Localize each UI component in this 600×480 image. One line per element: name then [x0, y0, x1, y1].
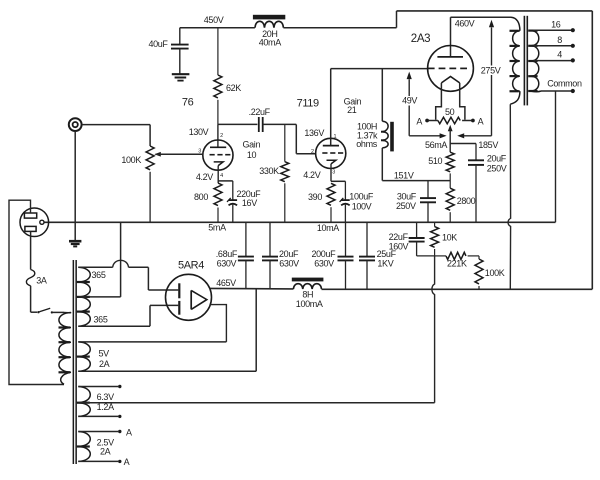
- transformer T2 core: [524, 16, 529, 106]
- wire 5AR4 filament to 5V winding: [210, 305, 226, 342]
- tube 76 envelope: [203, 140, 233, 170]
- tube 76 plate: [210, 146, 226, 148]
- svg-text:62K: 62K: [226, 83, 241, 93]
- tube 5AR4 plates: [178, 283, 180, 314]
- wire 365V center tap to ground bus: [78, 222, 120, 297]
- wire OPT primary bottom lead with hop over ground bus: [508, 104, 511, 289]
- svg-text:8: 8: [557, 35, 562, 45]
- capacitor 220uF 16V: [227, 198, 237, 222]
- svg-text:40uF: 40uF: [148, 39, 168, 49]
- measure arrow 49V to 2A3 grid: [407, 72, 412, 136]
- capacitor 20uF 630V: [262, 222, 278, 288]
- pin 2 of 7119: [311, 149, 314, 155]
- label 221K: [447, 258, 467, 268]
- transformer T1 365V winding: [77, 267, 90, 326]
- wire B+ bus right of choke: [322, 288, 593, 290]
- label 6.3V 1.2A: [97, 392, 114, 412]
- wire 450V rail left segment: [180, 27, 255, 29]
- wire hum frame right with arrow: [457, 133, 491, 138]
- tube 7119 envelope: [316, 138, 346, 168]
- svg-text:2: 2: [220, 133, 223, 139]
- label 49V: [401, 96, 420, 106]
- svg-text:40mA: 40mA: [259, 38, 281, 48]
- svg-text:50: 50: [445, 107, 455, 117]
- svg-text:100V: 100V: [352, 201, 372, 211]
- wire corner step up to top border: [396, 11, 398, 28]
- label 20uF 630V: [279, 249, 299, 268]
- wire Common tap: [532, 89, 575, 93]
- label 8: [557, 35, 562, 45]
- svg-text:A: A: [126, 427, 132, 437]
- label A at 2.5V top: [126, 427, 132, 437]
- svg-text:2A: 2A: [100, 447, 111, 457]
- svg-text:460V: 460V: [455, 18, 475, 28]
- label 450V: [204, 15, 224, 25]
- pin 2 of 76: [220, 133, 223, 139]
- label 7119 tube name: [297, 97, 319, 109]
- label Common: [547, 78, 582, 88]
- label 10K: [442, 232, 457, 242]
- capacitor 20uF 250V at 185V: [468, 160, 484, 222]
- wire coupling cap to 7119 grid: [263, 124, 317, 153]
- capacitor 100uF 100V: [340, 198, 350, 222]
- svg-text:151V: 151V: [394, 170, 414, 180]
- svg-text:10: 10: [247, 150, 257, 160]
- label 10mA: [317, 223, 339, 233]
- capacitor 22uF 160V: [409, 222, 435, 256]
- svg-text:630V: 630V: [279, 259, 299, 269]
- label 330K: [259, 166, 279, 176]
- svg-text:7119: 7119: [297, 97, 319, 109]
- wire 5V bottom tap to B+ takeoff: [78, 289, 256, 372]
- label 220uF 16V: [237, 189, 262, 208]
- choke L2 8H 100mA: [292, 278, 324, 290]
- tube 5AR4 filament: [191, 290, 207, 309]
- svg-text:185V: 185V: [478, 140, 498, 150]
- ground symbol at 40uF: [172, 74, 190, 80]
- label 510: [428, 156, 442, 166]
- pin 3 of 76: [198, 149, 201, 155]
- label 2A3 tube name: [411, 33, 431, 45]
- label 4.2V at 7119: [303, 170, 320, 180]
- node 76 plate junction wire: [217, 124, 219, 147]
- label Gain 21: [344, 96, 362, 115]
- svg-text:365: 365: [92, 270, 106, 280]
- transformer T1 5V winding: [77, 342, 90, 371]
- svg-text:1: 1: [333, 134, 336, 140]
- label 16: [551, 20, 561, 30]
- switch S1 power: [37, 308, 53, 313]
- transformer T2 secondary winding: [528, 31, 539, 91]
- svg-text:100mA: 100mA: [296, 299, 323, 309]
- svg-text:100K: 100K: [121, 155, 141, 165]
- svg-text:510: 510: [428, 156, 442, 166]
- svg-text:30uF: 30uF: [397, 191, 417, 201]
- label 20uF 250V: [487, 154, 507, 174]
- resistor 2800: [446, 188, 454, 222]
- svg-text:450V: 450V: [204, 15, 224, 25]
- wire B+ 465V line: [209, 287, 293, 290]
- wire 2.5V top tap: [78, 430, 121, 433]
- resistor 62K plate load: [214, 28, 222, 125]
- inductor 100H 1.37k plate choke: [381, 121, 394, 151]
- svg-text:275V: 275V: [481, 65, 501, 75]
- tube 2A3 grid dashes: [428, 67, 467, 69]
- svg-text:465V: 465V: [216, 278, 236, 288]
- label A right terminal: [478, 116, 484, 126]
- resistor 10K: [431, 222, 439, 256]
- wire 8 ohm tap: [534, 44, 575, 48]
- svg-text:221K: 221K: [447, 258, 467, 268]
- svg-text:10K: 10K: [442, 232, 457, 242]
- tube 2A3 plate: [437, 56, 463, 58]
- svg-text:250V: 250V: [487, 163, 507, 173]
- input jack J1: [69, 118, 82, 131]
- capacitor 40uF input filter: [171, 28, 189, 74]
- svg-text:76: 76: [182, 97, 194, 109]
- wire 10K node down with hop over B+ bus: [432, 256, 435, 403]
- label 8H 100mA: [296, 290, 323, 309]
- wire 450V rail right segment: [283, 27, 396, 29]
- label 5AR4 tube name: [178, 260, 204, 272]
- wire 7119 plate to 2A3 grid: [331, 69, 428, 146]
- svg-text:2A: 2A: [99, 359, 110, 369]
- label A left terminal: [416, 116, 422, 126]
- label 20H 40mA: [259, 29, 281, 48]
- svg-text:330K: 330K: [259, 166, 279, 176]
- capacitor .22uF coupling: [259, 117, 263, 132]
- capacitor 25uF 1KV: [359, 222, 375, 289]
- svg-text:5mA: 5mA: [208, 223, 226, 233]
- transformer T1 2.5V winding: [77, 432, 90, 462]
- resistor 221K feedback: [435, 252, 479, 259]
- svg-text:4: 4: [220, 173, 223, 179]
- svg-text:100uF: 100uF: [349, 192, 374, 202]
- wire 5V top tap: [78, 341, 226, 343]
- label 460V: [455, 18, 475, 28]
- fuse 3A: [26, 270, 34, 286]
- label 100uF 100V: [349, 192, 374, 212]
- label 4: [557, 50, 562, 60]
- transformer T1 primary winding: [59, 313, 72, 385]
- svg-text:10mA: 10mA: [317, 223, 339, 233]
- potentiometer 50 ohm hum balance: [425, 117, 475, 123]
- wire 365V top tap with hop: [78, 260, 178, 290]
- transformer T1 core: [73, 260, 77, 464]
- wire switch to primary: [53, 311, 71, 313]
- wire 76 grid from pot wiper: [154, 152, 203, 157]
- tube 76 cathode: [214, 162, 223, 183]
- svg-text:100K: 100K: [485, 268, 505, 278]
- label 136V: [304, 128, 324, 138]
- label 40uF: [148, 39, 168, 49]
- svg-text:1KV: 1KV: [377, 259, 393, 269]
- resistor 800 cathode: [214, 183, 222, 222]
- svg-text:250V: 250V: [396, 201, 416, 211]
- tube 2A3 filament: [436, 77, 465, 120]
- choke L1 20H 40mA: [253, 15, 285, 28]
- svg-text:20uF: 20uF: [487, 154, 507, 164]
- label 800: [194, 192, 208, 202]
- resistor 510: [446, 152, 454, 188]
- label .68uF 630V: [216, 249, 238, 268]
- wire jack to volume pot: [82, 125, 150, 146]
- svg-text:49V: 49V: [402, 96, 417, 106]
- svg-text:4.2V: 4.2V: [303, 170, 320, 180]
- svg-text:56mA: 56mA: [425, 140, 447, 150]
- wire 100uF branch: [331, 181, 345, 200]
- svg-text:Gain: Gain: [242, 140, 260, 150]
- label 100K volume: [121, 155, 141, 165]
- wire 100H bottom to 151V node: [382, 148, 450, 181]
- tube 7119 cathode: [327, 160, 336, 181]
- label 185V: [478, 140, 498, 150]
- wire plug neutral down to fuse: [30, 231, 32, 269]
- wire 4 ohm tap: [534, 58, 575, 62]
- label 200uF 630V: [312, 249, 337, 268]
- svg-text:630V: 630V: [217, 259, 237, 269]
- wire 2.5V bottom tap: [78, 460, 121, 463]
- svg-text:6.3V: 6.3V: [97, 392, 114, 402]
- potentiometer 100K volume: [146, 146, 154, 222]
- label 22uF 160V: [389, 232, 409, 252]
- wire 6.3V top tap: [78, 385, 121, 388]
- svg-text:2800: 2800: [457, 196, 476, 206]
- svg-text:160V: 160V: [389, 241, 409, 251]
- label 50: [445, 107, 455, 117]
- label 130V: [189, 127, 209, 137]
- svg-text:2: 2: [311, 149, 314, 155]
- label 151V: [394, 170, 414, 180]
- wire 100H top lead: [381, 69, 383, 122]
- label 30uF 250V: [396, 191, 417, 211]
- tube 7119 plate: [323, 145, 339, 147]
- svg-text:ohms: ohms: [356, 139, 377, 149]
- label 4.2V at 76 cathode: [196, 172, 213, 182]
- svg-text:630V: 630V: [314, 259, 334, 269]
- wire fuse to switch: [31, 286, 37, 312]
- wire 6.3V center tap hum line: [78, 402, 434, 404]
- label Gain 10: [242, 140, 260, 160]
- label .22uF: [249, 107, 271, 117]
- wire 185V branch: [450, 144, 476, 160]
- wire 6.3V bottom tap: [78, 415, 121, 418]
- svg-text:4.2V: 4.2V: [196, 172, 213, 182]
- resistor 390 cathode: [327, 183, 335, 222]
- label 56mA: [425, 140, 447, 150]
- wire 76 plate to coupling cap: [218, 123, 258, 125]
- tube 76 grid dashes: [210, 154, 231, 156]
- wire 16 ohm tap: [534, 28, 575, 32]
- svg-text:365: 365: [94, 315, 108, 325]
- AC plug P1: [20, 208, 49, 237]
- svg-text:A: A: [124, 457, 130, 467]
- wire jack ground drop: [74, 131, 76, 241]
- svg-text:4: 4: [557, 50, 562, 60]
- wire hum frame left with arrow: [409, 133, 446, 138]
- svg-text:130V: 130V: [189, 127, 209, 137]
- svg-text:Common: Common: [547, 78, 582, 88]
- svg-text:A: A: [416, 116, 422, 126]
- pin 3 of 7119: [332, 169, 335, 175]
- label 100H 1.37k ohms: [356, 121, 378, 149]
- label 2.5V 2A: [97, 437, 114, 456]
- svg-text:390: 390: [308, 192, 322, 202]
- svg-text:5V: 5V: [98, 348, 109, 358]
- tube 7119 grid dashes: [322, 152, 343, 154]
- pin 4 of 76: [220, 173, 223, 179]
- label 365 bottom: [94, 315, 108, 325]
- tube 5AR4 envelope: [166, 274, 212, 320]
- pin 1 of 7119: [333, 134, 336, 140]
- wire 220uF branch: [218, 181, 233, 200]
- svg-text:A: A: [478, 116, 484, 126]
- label 390: [308, 192, 322, 202]
- svg-text:3A: 3A: [36, 276, 47, 286]
- label 5mA: [208, 223, 226, 233]
- label 100K feedback: [485, 268, 505, 278]
- wire 2A3 plate to OPT primary: [451, 17, 512, 57]
- capacitor .68uF 630V: [238, 222, 254, 288]
- label 3A: [36, 276, 47, 286]
- label 275V: [480, 65, 502, 75]
- wire right border down to B+ bus: [591, 11, 593, 289]
- tube 2A3 envelope: [428, 46, 474, 92]
- transformer T2 primary winding: [510, 17, 520, 104]
- label 5V 2A: [98, 348, 109, 369]
- arrow wiper of hum pot: [448, 125, 453, 152]
- svg-text:3: 3: [332, 169, 335, 175]
- label 465V: [216, 278, 236, 288]
- label 25uF 1KV: [377, 249, 397, 268]
- capacitor 200uF 630V: [338, 222, 354, 289]
- svg-text:16: 16: [551, 20, 561, 30]
- svg-text:.22uF: .22uF: [249, 107, 271, 117]
- label 62K: [226, 83, 241, 93]
- resistor 100K to B+: [475, 256, 483, 289]
- svg-text:1.2A: 1.2A: [97, 402, 114, 412]
- ground symbol at jack: [69, 241, 81, 246]
- wire top border 460V line: [397, 10, 593, 12]
- label 2800: [457, 196, 476, 206]
- wire 365V bottom tap: [78, 305, 178, 326]
- svg-text:16V: 16V: [242, 198, 257, 208]
- svg-text:21: 21: [347, 105, 357, 115]
- transformer T1 6.3V winding: [77, 387, 90, 417]
- wire ground bus: [44, 221, 556, 223]
- label A at 2.5V bottom: [124, 457, 130, 467]
- svg-text:22uF: 22uF: [389, 232, 409, 242]
- svg-text:2A3: 2A3: [411, 33, 431, 45]
- label 76 tube name: [182, 97, 194, 109]
- wire plug hot to primary: [9, 200, 64, 384]
- resistor 330K grid leak: [281, 124, 289, 222]
- wire common ground riser: [555, 91, 557, 223]
- capacitor 30uF 250V: [420, 181, 436, 223]
- svg-text:5AR4: 5AR4: [178, 260, 204, 272]
- svg-text:800: 800: [194, 192, 208, 202]
- label 365 top: [92, 270, 106, 280]
- svg-text:136V: 136V: [304, 128, 324, 138]
- measure arrow 275V to 2A3 plate: [489, 20, 494, 136]
